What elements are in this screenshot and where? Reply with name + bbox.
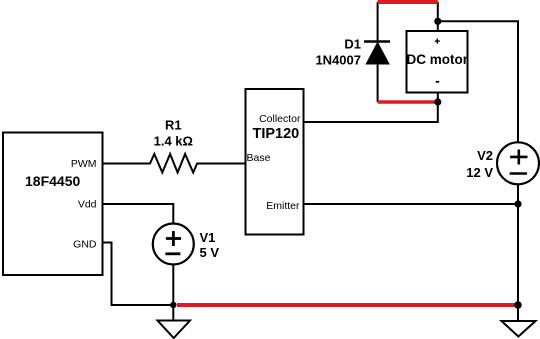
- svg-text:12 V: 12 V: [466, 165, 493, 180]
- svg-text:5 V: 5 V: [200, 245, 220, 260]
- svg-text:1.4 kΩ: 1.4 kΩ: [154, 134, 193, 149]
- svg-text:D1: D1: [344, 37, 361, 52]
- svg-text:Base: Base: [247, 152, 271, 164]
- svg-text:Emitter: Emitter: [266, 200, 300, 212]
- svg-text:1N4007: 1N4007: [315, 53, 361, 68]
- svg-text:V2: V2: [477, 148, 493, 163]
- svg-text:DC motor: DC motor: [407, 52, 469, 67]
- svg-text:V1: V1: [200, 230, 216, 245]
- svg-text:Vdd: Vdd: [78, 199, 97, 211]
- svg-text:PWM: PWM: [71, 158, 97, 170]
- svg-text:R1: R1: [165, 117, 182, 132]
- svg-text:18F4450: 18F4450: [25, 173, 80, 189]
- svg-text:Collector: Collector: [259, 113, 301, 125]
- svg-text:GND: GND: [73, 239, 97, 251]
- svg-text:TIP120: TIP120: [253, 126, 300, 142]
